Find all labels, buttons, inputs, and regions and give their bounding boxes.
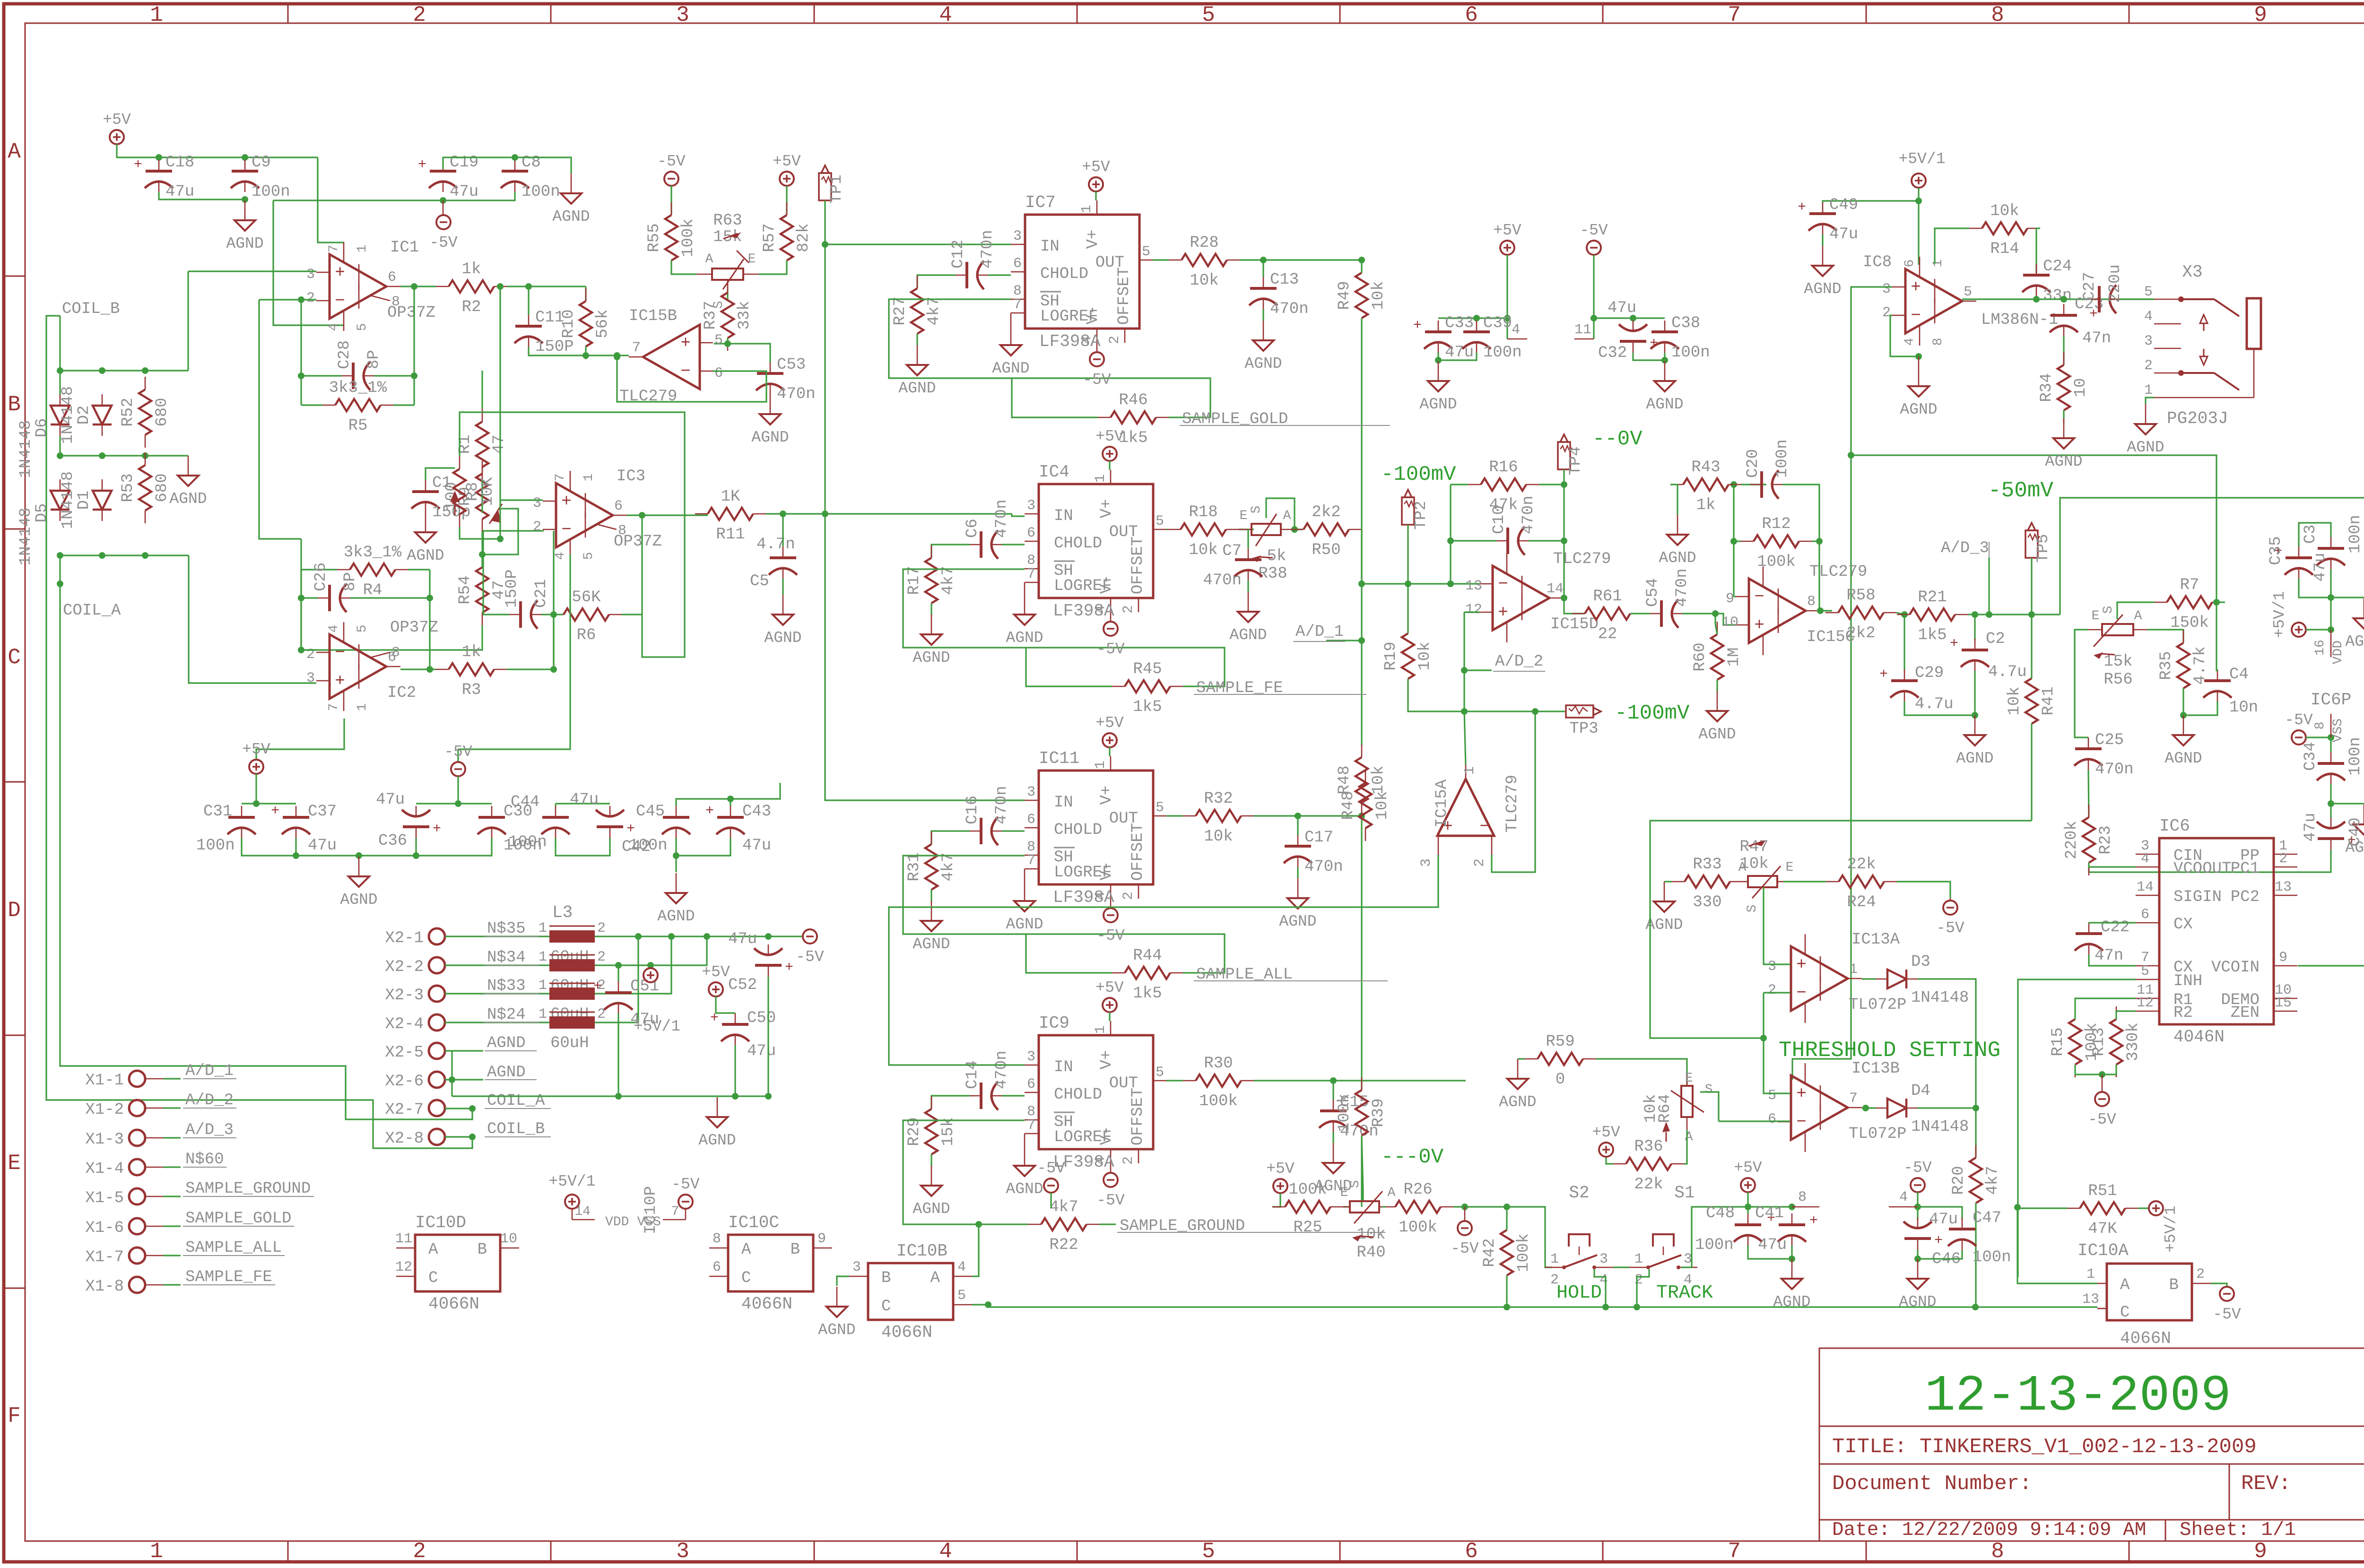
- wire TP1 down trunk: [825, 200, 1025, 800]
- wire R9 to R54: [481, 532, 483, 567]
- svg-text:470n: 470n: [1203, 572, 1242, 589]
- svg-text:B: B: [8, 392, 21, 417]
- svg-text:-50mV: -50mV: [1988, 478, 2053, 503]
- svg-text:AGND: AGND: [2045, 453, 2082, 470]
- wire X2-1 to L3: [445, 936, 549, 937]
- net label underline N$33: [485, 993, 539, 994]
- power +5V: [709, 982, 723, 996]
- svg-text:1k5: 1k5: [1133, 985, 1162, 1003]
- capacitor C46: [1904, 1237, 1931, 1240]
- capacitor C8: [502, 170, 528, 173]
- power -5V: [1911, 1178, 1925, 1192]
- svg-text:4: 4: [2144, 309, 2153, 325]
- svg-text:C54: C54: [1644, 578, 1662, 607]
- svg-text:-5V: -5V: [657, 153, 686, 170]
- -5V stub R24: [1950, 898, 1951, 901]
- wire IC1 minus riser: [259, 300, 301, 539]
- junction: [57, 552, 63, 559]
- wire IC4 V+ wire: [1109, 461, 1110, 470]
- junction: [2033, 296, 2040, 303]
- connector pin X2-6: [429, 1072, 445, 1088]
- IC6P vss stub: [2330, 714, 2332, 737]
- svg-text:47u: 47u: [1929, 1211, 1958, 1229]
- svg-text:5: 5: [1156, 800, 1164, 816]
- junction: [2328, 594, 2334, 601]
- svg-text:C48: C48: [1706, 1204, 1735, 1222]
- wire C33 C39 top rail: [1438, 317, 1507, 319]
- wire R20 bottom: [1975, 1203, 1976, 1307]
- svg-text:4k7: 4k7: [1049, 1198, 1078, 1216]
- wire -5V rail to IC1 V-: [273, 200, 344, 325]
- testpoint TP5: [2025, 530, 2038, 558]
- svg-text:C49: C49: [1829, 196, 1858, 214]
- ground AGND: [2063, 418, 2065, 438]
- svg-text:10k: 10k: [1370, 281, 1388, 310]
- wire IC11 V+ wire: [1109, 747, 1110, 756]
- junction: [2328, 800, 2334, 807]
- junction: [635, 933, 642, 940]
- svg-text:S: S: [2101, 606, 2116, 614]
- net label SAMPLE_GROUND underline: [1117, 1232, 1385, 1233]
- junction: [99, 367, 105, 374]
- svg-text:C47: C47: [1973, 1209, 2001, 1227]
- svg-text:SIGIN: SIGIN: [2173, 888, 2222, 906]
- wire C44 top wires: [555, 804, 556, 806]
- wire C11 bottom row: [529, 347, 617, 355]
- svg-text:R59: R59: [1546, 1033, 1574, 1051]
- svg-text:A: A: [2134, 609, 2142, 624]
- ground AGND: [931, 1166, 932, 1186]
- resistor R51: [2080, 1202, 2125, 1214]
- capacitor C9: [232, 170, 258, 173]
- wire R60 gnd: [1716, 680, 1718, 691]
- wire C14 left to R29: [931, 1096, 970, 1109]
- svg-text:−: −: [1911, 306, 1921, 325]
- wire IC6P vss wire: [2306, 736, 2331, 738]
- wire +5V/1 stub: [650, 965, 651, 968]
- power +5V: [1741, 1178, 1755, 1192]
- junction: [1447, 580, 1454, 587]
- svg-text:8: 8: [1807, 594, 1816, 610]
- testpoint TP1: [819, 173, 831, 200]
- svg-text:E: E: [1786, 860, 1794, 875]
- svg-text:2: 2: [1107, 336, 1123, 344]
- svg-text:AGND: AGND: [898, 380, 936, 397]
- pin4 stub C46: [1889, 1206, 1918, 1208]
- svg-text:TL072P: TL072P: [1849, 1125, 1906, 1143]
- svg-text:R23: R23: [2097, 825, 2115, 854]
- power -5V: [1943, 901, 1957, 915]
- junction: [1358, 580, 1365, 587]
- svg-text:-5V: -5V: [2285, 711, 2313, 729]
- resistor R14: [1982, 222, 2027, 234]
- svg-text:COIL_B: COIL_B: [62, 300, 120, 318]
- svg-text:+5V: +5V: [1082, 158, 1110, 176]
- power -5V: [678, 1195, 693, 1209]
- svg-text:C: C: [2120, 1304, 2129, 1322]
- diode D4: [1887, 1099, 1906, 1118]
- svg-text:R14: R14: [1990, 240, 2019, 258]
- junction: [479, 551, 486, 558]
- svg-text:VSS: VSS: [637, 1215, 661, 1230]
- wire TP5 wire: [2031, 558, 2032, 615]
- svg-text:LF398A: LF398A: [1053, 601, 1114, 621]
- svg-text:TP3: TP3: [1569, 720, 1598, 738]
- svg-text:7: 7: [1728, 3, 1741, 27]
- svg-text:R53: R53: [119, 473, 137, 502]
- IC4 LOGREF gnd wire: [1024, 582, 1026, 595]
- wire C48 C41 bottom: [1748, 1246, 1792, 1259]
- resistor R50: [1304, 523, 1349, 536]
- svg-text:R7: R7: [2180, 576, 2199, 594]
- wire R38 S loop: [1266, 498, 1295, 529]
- wire R19 bottom TP3 row: [1408, 679, 1565, 711]
- svg-text:ZEN: ZEN: [2231, 1004, 2260, 1022]
- junction: [57, 452, 63, 459]
- wire C45 grp gnd: [675, 856, 677, 872]
- svg-text:C10: C10: [1490, 505, 1508, 534]
- wire X2-2 to L3: [445, 964, 549, 966]
- resistor R55: [665, 215, 678, 260]
- resistor R22b: [1041, 1218, 1086, 1230]
- wire C4 bot: [2216, 702, 2217, 715]
- junction: [1461, 1204, 1468, 1210]
- wire C45 C43 bottom: [676, 838, 730, 856]
- resistor R23: [2083, 817, 2095, 863]
- svg-text:AGND: AGND: [913, 936, 950, 953]
- -5V stub row: [1464, 1207, 1466, 1221]
- wire R1-R9 join: [481, 480, 483, 513]
- wire IC15A out up: [1464, 711, 1466, 765]
- wire R6 right/fb: [622, 514, 642, 615]
- wire R31 bottom: [930, 890, 932, 901]
- wire C24 bottom: [2035, 296, 2037, 299]
- svg-text:+: +: [1879, 667, 1888, 683]
- wire -5V group rail: [1593, 255, 1594, 339]
- svg-text:COIL_B: COIL_B: [487, 1120, 545, 1138]
- svg-text:AGND: AGND: [2345, 633, 2364, 650]
- svg-text:AGND: AGND: [1244, 355, 1282, 373]
- svg-text:A/D_3: A/D_3: [185, 1121, 234, 1139]
- capacitor C11: [515, 325, 542, 328]
- svg-text:4: 4: [1903, 338, 1917, 346]
- power +5V: [780, 172, 794, 186]
- svg-text:C: C: [881, 1298, 891, 1316]
- svg-text:-5V: -5V: [2213, 1306, 2241, 1323]
- svg-text:OP37Z: OP37Z: [614, 533, 662, 551]
- junction: [99, 552, 105, 559]
- junction: [1590, 315, 1597, 321]
- wire S1 pin2 drop: [1637, 1269, 1649, 1307]
- wire threshold node column: [1764, 993, 1790, 1093]
- svg-text:22k: 22k: [1634, 1176, 1663, 1194]
- wire D3 D4 join down: [1975, 1108, 1976, 1158]
- wire A/D_1 column: [1361, 584, 1362, 746]
- power -5V: [1104, 1173, 1118, 1187]
- svg-text:Sheet: 1/1: Sheet: 1/1: [2180, 1519, 2296, 1541]
- junction: [1789, 1256, 1795, 1262]
- svg-text:100k: 100k: [1336, 1093, 1354, 1132]
- wire C22 pin6 wire: [2089, 922, 2136, 923]
- wire X1-1: [163, 1078, 181, 1079]
- wire R51 right: [2138, 1207, 2149, 1209]
- junction: [822, 511, 828, 517]
- ground AGND: [917, 345, 918, 365]
- wire COIL_B entry: [46, 316, 472, 1148]
- wire R14 right: [2036, 228, 2040, 273]
- ground AGND: [358, 857, 360, 876]
- power: [643, 968, 658, 982]
- svg-text:N$35: N$35: [487, 920, 526, 938]
- wire R37 to IC15B pin5: [714, 338, 728, 344]
- wire AGND rail C18 C9: [159, 192, 245, 199]
- wire fbL column: [1733, 485, 1734, 597]
- svg-text:3: 3: [1599, 1251, 1608, 1267]
- R63 wiper wire: [727, 280, 729, 301]
- wire IC8 out: [1962, 298, 2154, 300]
- op-amp IC15A: [1437, 779, 1494, 836]
- wire C4 top: [2216, 669, 2217, 671]
- wire R55 top: [670, 186, 672, 215]
- wire C46 C47 bottom: [1918, 1250, 1962, 1259]
- wire C1 top: [426, 468, 455, 480]
- svg-text:150P: 150P: [503, 569, 521, 608]
- junction: [673, 852, 679, 859]
- wire C11 top pin: [528, 286, 529, 315]
- resistor R15: [2069, 1019, 2081, 1065]
- svg-text:150p: 150p: [432, 503, 471, 521]
- svg-text:AGND: AGND: [487, 1064, 526, 1082]
- svg-text:4: 4: [327, 323, 341, 331]
- svg-text:12-13-2009: 12-13-2009: [1925, 1368, 2231, 1425]
- power -5V: [1587, 241, 1601, 255]
- wire COIL_B riser to IC1: [187, 271, 189, 371]
- IC9 LOGREF gnd wire: [1024, 1134, 1026, 1146]
- junction: [1730, 538, 1737, 545]
- resistor R11: [708, 508, 753, 520]
- svg-text:C32: C32: [1598, 344, 1627, 362]
- potentiometer R38: [1252, 524, 1281, 535]
- IC IC9 LF398A: [1039, 1035, 1153, 1149]
- svg-text:3: 3: [306, 670, 315, 686]
- wire IC2 pin2 stub wire: [301, 649, 316, 650]
- junction: [1986, 611, 1992, 618]
- svg-text:R5: R5: [348, 417, 368, 435]
- svg-text:14: 14: [574, 1204, 591, 1219]
- svg-text:−: −: [680, 362, 691, 381]
- svg-text:IN: IN: [1054, 507, 1073, 525]
- wire IC10B pin5 rail: [972, 1305, 988, 1307]
- wire column R39 down: [1361, 1135, 1362, 1207]
- svg-text:R49: R49: [1336, 281, 1354, 310]
- wire R54 to IC2 pin2: [301, 539, 482, 650]
- connector pin X1-2: [129, 1100, 145, 1116]
- wire C36 rail: [458, 776, 492, 804]
- net label SAMPLE_FE underline: [1194, 694, 1366, 695]
- svg-text:AGND: AGND: [1006, 916, 1043, 933]
- IC11 LOGREF gnd wire: [1024, 869, 1026, 881]
- svg-text:C16: C16: [964, 796, 982, 824]
- svg-text:N$34: N$34: [487, 949, 526, 967]
- junction: [1730, 481, 1737, 488]
- wire C52 minus wire: [768, 936, 803, 937]
- svg-text:TLC279: TLC279: [1504, 775, 1521, 832]
- IC8 V- stub gnd: [1918, 356, 1920, 366]
- svg-text:1k5: 1k5: [1133, 698, 1162, 716]
- svg-text:10: 10: [500, 1231, 517, 1247]
- wire A/D_1 stub: [1326, 640, 1362, 641]
- junction: [1817, 607, 1824, 614]
- svg-text:10k: 10k: [1190, 272, 1218, 290]
- capacitor C15: [1320, 1109, 1347, 1112]
- svg-text:4: 4: [957, 1259, 966, 1275]
- svg-text:AGND: AGND: [1900, 401, 1937, 418]
- ground AGND: [1717, 691, 1718, 711]
- wire C34 top: [2330, 737, 2331, 752]
- svg-text:−: −: [1796, 1112, 1807, 1132]
- net underline COILB: [485, 1136, 551, 1137]
- wire R8 bottom: [460, 527, 500, 539]
- resistor R1: [476, 422, 488, 467]
- wire IC15B plus node to C53: [728, 344, 770, 362]
- svg-text:10k: 10k: [1990, 202, 2019, 220]
- svg-text:1K: 1K: [721, 488, 740, 506]
- wire AGND X2 drop: [451, 1051, 452, 1096]
- svg-text:4.7u: 4.7u: [1988, 663, 2027, 681]
- junction: [242, 196, 248, 203]
- wire R19 top: [1407, 584, 1408, 633]
- op-amp IC1: [330, 254, 386, 319]
- svg-text:1k5: 1k5: [1918, 626, 1947, 644]
- wire bottom rail: [988, 1306, 2097, 1308]
- svg-text:D5: D5: [33, 503, 51, 523]
- svg-text:C13: C13: [1270, 271, 1299, 289]
- connector pin X2-7: [429, 1100, 445, 1116]
- svg-text:C8: C8: [521, 154, 541, 172]
- svg-text:V+: V+: [1084, 230, 1102, 249]
- net label underline SAMPLE_GOLD: [183, 1226, 294, 1227]
- svg-text:AGND: AGND: [1006, 1180, 1043, 1198]
- svg-text:C: C: [8, 645, 21, 670]
- svg-text:CHOLD: CHOLD: [1054, 821, 1102, 839]
- wire C31 C37 bottom: [242, 838, 296, 856]
- svg-text:2: 2: [533, 519, 541, 535]
- svg-text:AGND: AGND: [1899, 1293, 1936, 1311]
- svg-text:S1: S1: [1674, 1183, 1695, 1203]
- svg-text:470n: 470n: [1270, 300, 1309, 318]
- IC IC7 LF398A: [1025, 215, 1139, 329]
- svg-text:5: 5: [2144, 284, 2153, 300]
- diode D5: [51, 491, 70, 510]
- wire IC13B minus wire: [1719, 1120, 1790, 1122]
- connector pin X2-3: [429, 986, 445, 1002]
- op-amp IC8: [1905, 269, 1962, 333]
- junction: [614, 354, 620, 360]
- svg-text:R30: R30: [1204, 1055, 1233, 1073]
- wire C13 gnd: [1262, 309, 1264, 321]
- svg-text:-5V: -5V: [1903, 1159, 1932, 1177]
- resistor R30: [1196, 1074, 1241, 1087]
- capacitor C17: [1285, 845, 1311, 848]
- svg-text:A: A: [1388, 1186, 1396, 1200]
- ground AGND: [1664, 361, 1666, 381]
- wire R57 top: [786, 186, 787, 215]
- svg-text:C20: C20: [1744, 449, 1762, 478]
- wire C52 bottom: [767, 977, 769, 1096]
- svg-text:C27: C27: [2081, 272, 2099, 301]
- wire C54 right: [1682, 613, 1715, 614]
- svg-text:100k: 100k: [1515, 1233, 1533, 1272]
- ground AGND: [717, 1097, 718, 1117]
- svg-text:REV:: REV:: [2241, 1472, 2291, 1496]
- svg-text:F: F: [8, 1404, 21, 1429]
- junction: [142, 552, 148, 559]
- junction: [985, 1301, 991, 1308]
- A/D_2 underline: [1493, 671, 1545, 672]
- svg-text:IC10B: IC10B: [896, 1241, 947, 1261]
- svg-text:R61: R61: [1593, 588, 1622, 606]
- svg-text:C18: C18: [165, 154, 194, 172]
- resistor R34: [2058, 365, 2070, 410]
- svg-text:3k3_1%: 3k3_1%: [344, 544, 402, 562]
- potentiometer R8: [450, 456, 497, 527]
- power +5V: [1500, 241, 1514, 255]
- wire X1-7: [163, 1255, 181, 1256]
- IC11 V- stub: [1110, 899, 1112, 908]
- svg-text:C17: C17: [1304, 829, 1333, 847]
- svg-text:+5V: +5V: [1592, 1124, 1620, 1141]
- resistor R33: [1685, 875, 1730, 888]
- junction: [1973, 1105, 1979, 1111]
- connector pin X1-5: [129, 1188, 145, 1204]
- power -5V: [803, 929, 817, 944]
- svg-text:60uH: 60uH: [550, 1034, 589, 1052]
- wire IC7 OUT wire: [1153, 259, 1169, 260]
- svg-text:V-: V-: [1098, 861, 1116, 881]
- svg-text:N$33: N$33: [487, 977, 526, 995]
- potentiometer R56: [2102, 624, 2133, 635]
- svg-text:2: 2: [1634, 1272, 1643, 1288]
- svg-text:AGND: AGND: [1419, 396, 1457, 413]
- svg-text:X2-6: X2-6: [385, 1073, 424, 1091]
- svg-text:R48: R48: [1339, 791, 1357, 820]
- power +5V: [1273, 1179, 1287, 1193]
- wire R14 left: [1935, 228, 1969, 264]
- svg-text:-5V: -5V: [1936, 919, 1964, 937]
- resistor R54: [476, 567, 488, 613]
- svg-text:+: +: [680, 333, 691, 353]
- svg-text:AGND: AGND: [764, 629, 801, 647]
- resistor R21: [1910, 608, 1955, 621]
- svg-text:C3: C3: [2302, 525, 2320, 544]
- svg-text:C28: C28: [336, 340, 354, 369]
- ground AGND: [1822, 246, 1824, 266]
- ground AGND: [1024, 595, 1026, 615]
- wire R59 right: [1596, 1059, 1687, 1086]
- wire IC11 OUT wire: [1166, 815, 1183, 816]
- net label underline N$34: [485, 965, 539, 966]
- wire L3 out 1: [595, 936, 768, 937]
- svg-text:V-: V-: [1098, 575, 1116, 594]
- wire R30 node right: [1333, 1080, 1466, 1081]
- wire R12 left: [1734, 540, 1741, 542]
- svg-text:R28: R28: [1190, 234, 1218, 252]
- svg-text:−: −: [1754, 587, 1764, 606]
- testpoint TP2: [1402, 497, 1414, 525]
- svg-text:C24: C24: [2043, 258, 2072, 276]
- wire D3 out: [1918, 979, 1976, 1108]
- wire R15 R13 join: [2075, 1065, 2116, 1074]
